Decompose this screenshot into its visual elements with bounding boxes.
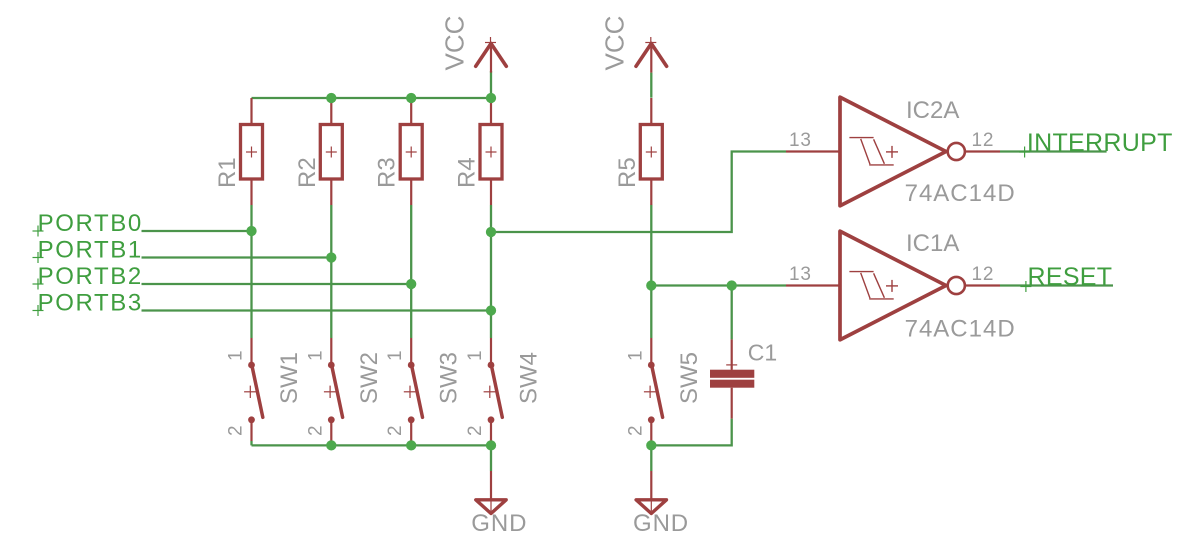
svg-text:PORTB3: PORTB3 (38, 289, 143, 316)
junction VCC bus at R4 (486, 93, 496, 103)
pin 1 label SW5 (625, 350, 646, 361)
junction PORTB0 at R1 (246, 226, 256, 236)
svg-text:SW2: SW2 (356, 352, 383, 404)
svg-text:SW4: SW4 (516, 352, 543, 404)
svg-text:2: 2 (226, 425, 247, 436)
pin 1 label SW2 (305, 350, 326, 361)
junction PORTB1 at R2 (326, 252, 336, 262)
switch SW3 (404, 338, 423, 441)
wire column R3 to switch (410, 205, 412, 338)
svg-text:IC1A: IC1A (906, 230, 959, 257)
wire VCC stub to arrow at R5 (650, 73, 652, 98)
svg-text:PORTB1: PORTB1 (38, 236, 143, 263)
label SW5 (676, 352, 703, 404)
svg-text:GND: GND (633, 510, 689, 537)
svg-text:R5: R5 (614, 157, 641, 188)
resistor R5 (640, 98, 662, 205)
svg-text:12: 12 (972, 264, 995, 285)
junction GND bus at SW5 (646, 440, 656, 450)
resistor R4 (480, 98, 502, 205)
svg-text:2: 2 (305, 425, 326, 436)
junction PORTB3 at R4 (486, 305, 496, 315)
label SW1 (276, 352, 303, 404)
capacitor C1 (710, 339, 754, 418)
svg-text:PORTB0: PORTB0 (38, 210, 143, 237)
junction GND bus at SW3 (406, 440, 416, 450)
junction node C1 at IC1A row (727, 280, 737, 290)
wire stub switch pin2 col R5 (650, 441, 652, 445)
wire column R5 to switch SW5 (650, 205, 652, 338)
svg-text:13: 13 (789, 130, 812, 151)
op-amp inverter IC1A (786, 231, 1000, 340)
svg-text:1: 1 (305, 350, 326, 361)
junction node R4 to IC2A (486, 227, 496, 237)
switch SW5 (644, 338, 663, 441)
pin 2 label SW1 (226, 425, 247, 436)
wire net PORTB0 (142, 230, 252, 232)
pin 2 label SW5 (625, 425, 646, 436)
net label PORTB0 (33, 210, 143, 237)
pin 2 label SW4 (465, 425, 486, 436)
svg-text:1: 1 (465, 350, 486, 361)
wire C1 bottom to GND bus (651, 419, 731, 446)
junction node R5 at IC1A row (646, 280, 656, 290)
label SW3 (436, 352, 463, 404)
junction GND bus at SW2 (326, 440, 336, 450)
svg-text:R2: R2 (294, 157, 321, 188)
label SW2 (356, 352, 383, 404)
resistor R2 (320, 98, 342, 205)
pin 13 label IC1A (789, 264, 812, 285)
label VCC (440, 16, 470, 71)
svg-text:13: 13 (789, 264, 812, 285)
label R5 (614, 157, 641, 188)
svg-text:SW1: SW1 (276, 352, 303, 404)
svg-text:PORTB2: PORTB2 (38, 263, 143, 290)
svg-text:12: 12 (972, 130, 995, 151)
wire net PORTB2 (142, 283, 412, 285)
net label RESET (1020, 263, 1112, 292)
label VCC (600, 16, 630, 71)
svg-text:GND: GND (471, 510, 527, 537)
switch SW4 (484, 338, 503, 441)
pin 2 label SW2 (305, 425, 326, 436)
svg-text:VCC: VCC (600, 16, 630, 71)
label IC1A (906, 230, 959, 257)
net label PORTB2 (33, 263, 143, 290)
svg-text:1: 1 (625, 350, 646, 361)
power symbol VCC (476, 37, 507, 73)
resistor R1 (241, 98, 263, 205)
label R2 (294, 157, 321, 188)
svg-text:IC2A: IC2A (906, 97, 959, 124)
svg-text:SW3: SW3 (436, 352, 463, 404)
svg-text:SW5: SW5 (676, 352, 703, 404)
wire net PORTB1 (142, 256, 332, 258)
value label 74AC14D of IC1A (905, 315, 1016, 342)
junction PORTB2 at R3 (406, 279, 416, 289)
junction GND bus at SW4 (486, 440, 496, 450)
wire column R1 to switch (250, 205, 252, 338)
svg-text:RESET: RESET (1028, 263, 1113, 291)
svg-text:2: 2 (465, 425, 486, 436)
svg-text:R4: R4 (454, 157, 481, 188)
switch SW2 (324, 338, 343, 441)
net label INTERRUPT (1019, 129, 1173, 158)
svg-text:C1: C1 (748, 340, 777, 366)
wire column R4 to switch (490, 205, 492, 338)
pin 12 label IC1A (972, 264, 995, 285)
svg-text:1: 1 (226, 350, 247, 361)
pin 1 label SW1 (226, 350, 247, 361)
wire VCC top bus (252, 97, 492, 99)
svg-text:R1: R1 (214, 157, 241, 188)
wire stub switch pin2 col R3 (410, 441, 412, 445)
svg-text:2: 2 (625, 425, 646, 436)
pin 12 label IC2A (972, 130, 995, 151)
junction VCC bus at R2 (326, 93, 336, 103)
svg-text:R3: R3 (374, 157, 401, 188)
label SW4 (516, 352, 543, 404)
resistor R3 (400, 98, 422, 205)
wire node to IC1A input (651, 284, 786, 286)
wire VCC stub to arrow at R4 (490, 71, 492, 98)
op-amp inverter IC2A (786, 97, 1000, 206)
svg-text:2: 2 (385, 425, 406, 436)
label GND (471, 510, 527, 537)
svg-text:VCC: VCC (440, 16, 470, 71)
net label PORTB1 (33, 236, 143, 263)
label C1 (748, 340, 777, 366)
power symbol VCC (636, 37, 667, 73)
label IC2A (906, 97, 959, 124)
pin 2 label SW3 (385, 425, 406, 436)
svg-text:74AC14D: 74AC14D (905, 180, 1016, 207)
net label PORTB3 (33, 289, 143, 316)
wire stub switch pin2 col R2 (330, 441, 332, 445)
ground symbol GND (636, 471, 666, 514)
wire column R2 to switch (330, 205, 332, 338)
label R1 (214, 157, 241, 188)
pin 1 label SW3 (385, 350, 406, 361)
wire stub switch pin2 col R4 (490, 441, 492, 445)
wire switch GND bus (252, 444, 492, 446)
switch SW1 (244, 338, 263, 441)
wire net RESET (1000, 284, 1113, 286)
wire node to IC2A input (491, 152, 786, 233)
junction VCC bus at R3 (406, 93, 416, 103)
svg-text:1: 1 (385, 350, 406, 361)
wire to GND symbol right (650, 445, 652, 471)
pin 1 label SW4 (465, 350, 486, 361)
svg-text:INTERRUPT: INTERRUPT (1027, 129, 1173, 157)
wire C1 top to IC1A row (731, 286, 733, 340)
pin 13 label IC2A (789, 130, 812, 151)
wire to GND symbol left (490, 445, 492, 471)
ground symbol GND (476, 471, 506, 514)
wire net PORTB3 (142, 309, 492, 311)
wire stub switch pin2 col R1 (250, 441, 252, 445)
svg-text:74AC14D: 74AC14D (905, 315, 1016, 342)
label R4 (454, 157, 481, 188)
value label 74AC14D of IC2A (905, 180, 1016, 207)
wire net INTERRUPT (1000, 150, 1107, 152)
label R3 (374, 157, 401, 188)
label GND (633, 510, 689, 537)
